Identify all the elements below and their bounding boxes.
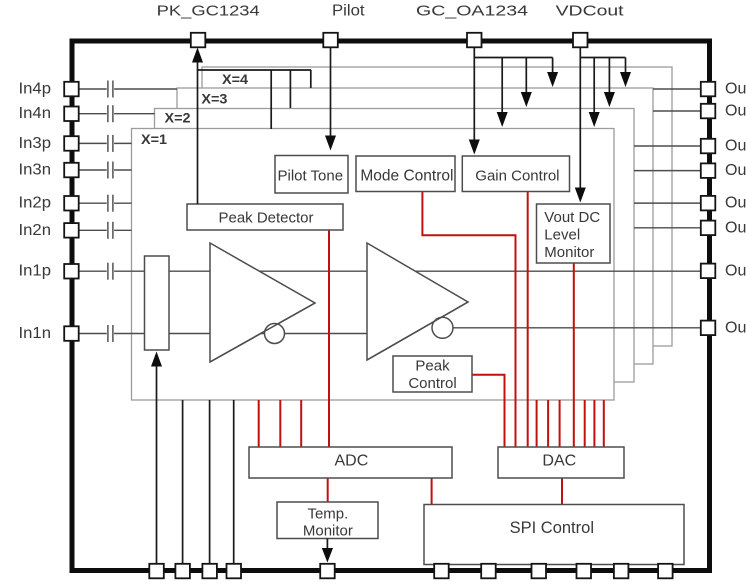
red wire Gain Control to DAC — [527, 192, 529, 448]
svg-text:GC_OA1234: GC_OA1234 — [416, 2, 528, 19]
wire Out4p from card X=3 — [653, 88, 702, 90]
pin Out4n — [701, 104, 716, 119]
svg-text:Vout DC: Vout DC — [544, 209, 600, 226]
svg-text:Control: Control — [408, 375, 456, 392]
bottom pin 4 — [227, 564, 242, 579]
wire In1p signal path to Out1p — [114, 270, 701, 272]
block ADC — [249, 447, 452, 478]
wire Out4n from card X=3 — [653, 110, 702, 112]
capacitor In4p — [108, 81, 113, 98]
pin In3n — [64, 163, 79, 178]
block Peak Control — [393, 356, 472, 392]
red wire ADC to Temp Monitor — [327, 478, 329, 502]
svg-text:Peak Detector: Peak Detector — [218, 210, 313, 227]
wire In2n to card X=1 — [114, 229, 132, 231]
wire bottom pin 3 to card — [209, 400, 211, 563]
wire PK drop to card X=2 — [289, 70, 291, 108]
card X=2 — [155, 109, 635, 383]
bottom pin SPI 1 — [434, 564, 449, 579]
bottom pin SPI 6 — [658, 564, 673, 579]
red stub card to DAC 3 — [559, 400, 561, 447]
block Mode Control — [356, 156, 455, 192]
block Vout DC Level Monitor — [537, 204, 611, 263]
wire In1p lead — [80, 270, 107, 272]
svg-text:Out1n: Out1n — [725, 319, 746, 336]
wire In3p lead — [80, 142, 107, 144]
pin VDCout — [573, 33, 588, 48]
bottom pin SPI 5 — [614, 564, 629, 579]
wire In4p to card X=3 — [114, 88, 177, 90]
block DAC — [498, 447, 624, 478]
arrowhead VDCout into Vout DC Monitor — [575, 188, 586, 203]
bottom pin 2 — [175, 564, 190, 579]
wire Pilot to Pilot Tone — [330, 48, 332, 137]
pin In1n — [64, 326, 79, 341]
svg-text:In3p: In3p — [19, 135, 52, 152]
red stub card to DAC 1 — [536, 400, 538, 447]
svg-text:Monitor: Monitor — [544, 244, 594, 261]
svg-text:In2p: In2p — [19, 195, 52, 212]
wire Temp Monitor to bottom pin — [326, 539, 328, 550]
bottom pin Temp — [320, 564, 335, 579]
pin Out3n — [701, 163, 716, 178]
wire VDC branch — [580, 57, 625, 59]
input mux — [145, 256, 170, 350]
wire In4n lead — [80, 113, 107, 115]
wire In3n to card X=1 — [114, 169, 132, 171]
svg-text:X=4: X=4 — [222, 71, 248, 87]
svg-text:Gain Control: Gain Control — [475, 168, 559, 185]
red stub card to DAC 5 — [593, 400, 595, 447]
capacitor In1p — [108, 263, 113, 280]
svg-text:Level: Level — [544, 227, 580, 244]
arrow GC drop to card X=1 — [497, 58, 508, 128]
wire PK branch — [198, 69, 312, 71]
pin In4p — [64, 82, 79, 97]
red stub card to ADC 3 — [300, 400, 302, 447]
svg-text:Out1p: Out1p — [725, 262, 746, 279]
svg-text:X=3: X=3 — [201, 91, 227, 107]
wire In4p lead — [80, 88, 107, 90]
pin In3p — [64, 136, 79, 151]
red stub card to ADC 1 — [258, 400, 260, 447]
red wire Mode Control to DAC — [422, 192, 515, 448]
pin Out3p — [701, 139, 716, 154]
svg-text:X=1: X=1 — [141, 131, 167, 147]
bottom pin SPI 2 — [481, 564, 496, 579]
red wire Peak Control to DAC — [472, 375, 505, 447]
wire PK drop to card X=3 — [310, 70, 312, 88]
arrowhead GC_OA1234 into Gain Control — [469, 140, 480, 155]
svg-text:Mode Control: Mode Control — [360, 168, 453, 185]
arrow VDC drop to card X=2 — [604, 58, 615, 108]
pin In2n — [64, 223, 79, 238]
pin Out2n — [701, 221, 716, 236]
svg-text:In4p: In4p — [19, 81, 52, 98]
wire In4n to card X=2 — [114, 113, 155, 115]
red wire DAC to SPI Control — [561, 478, 563, 505]
arrowhead PK_GC1234 up — [192, 48, 203, 63]
pin Out1p — [701, 264, 716, 279]
svg-text:Peak: Peak — [415, 358, 450, 375]
inversion bubble on A2 — [432, 317, 453, 338]
arrow GC drop to card X=2 — [521, 58, 532, 108]
wire In3p to card X=1 — [114, 142, 132, 144]
svg-text:In3n: In3n — [19, 162, 52, 179]
wire bottom pin 2 to card — [182, 400, 184, 563]
capacitor In4n — [108, 105, 113, 122]
svg-text:Pilot Tone: Pilot Tone — [277, 168, 343, 185]
svg-text:SPI Control: SPI Control — [510, 519, 594, 537]
card X=3 — [177, 88, 653, 364]
svg-text:In1p: In1p — [19, 263, 52, 280]
svg-text:Out2p: Out2p — [725, 195, 746, 212]
red wire Peak Detector to ADC — [328, 230, 330, 447]
wire GC branch — [474, 57, 552, 59]
svg-text:Temp.: Temp. — [307, 506, 348, 523]
svg-text:Pilot: Pilot — [332, 2, 365, 19]
inversion bubble on A1 — [265, 324, 285, 344]
svg-text:ADC: ADC — [335, 453, 369, 470]
wire In2p lead — [80, 202, 107, 204]
pin PK_GC1234 — [191, 33, 206, 48]
wire In1n signal path — [114, 333, 410, 335]
arrowhead into mux — [151, 352, 162, 367]
svg-text:Monitor: Monitor — [303, 523, 353, 540]
pin In4n — [64, 107, 79, 122]
arrow GC drop to card X=3 — [547, 58, 558, 88]
wire In2n lead — [80, 229, 107, 231]
capacitor In1n — [108, 325, 113, 342]
svg-text:Out2n: Out2n — [725, 219, 746, 236]
bottom pin 1 — [149, 564, 164, 579]
op-amp A1 — [210, 243, 315, 362]
capacitor In2p — [108, 195, 113, 212]
wire GC_OA1234 main — [473, 48, 475, 141]
block Pilot Tone — [275, 156, 348, 194]
pin Pilot — [323, 33, 338, 48]
capacitor In2n — [108, 222, 113, 239]
wire Out2p from card X=2 — [634, 202, 702, 204]
pin In2p — [64, 196, 79, 211]
arrow VDC drop to card X=1 — [589, 58, 600, 128]
wire VDCout main — [579, 48, 581, 189]
pin Out4p — [701, 82, 716, 97]
wire PK drop to card X=1 — [270, 70, 272, 129]
wire In3n lead — [80, 169, 107, 171]
op-amp A2 lower edge over bubble — [367, 302, 468, 360]
svg-text:Out4p: Out4p — [725, 81, 746, 98]
wire bottom pin 4 to card — [233, 400, 235, 563]
pin Out1n — [701, 321, 716, 336]
arrow VDC drop to card X=3 — [620, 58, 631, 88]
red stub card to ADC 2 — [279, 400, 281, 447]
bottom pin SPI 3 — [532, 564, 547, 579]
block SPI Control — [424, 505, 684, 565]
wire PK_GC1234 from Peak Detector — [197, 60, 199, 204]
pin GC_OA1234 — [467, 33, 482, 48]
arrowhead Temp Monitor to pin — [322, 548, 333, 563]
pin In1p — [64, 264, 79, 279]
wire In2p to card X=1 — [114, 202, 132, 204]
chip boundary — [72, 41, 710, 571]
arrowhead Pilot — [325, 136, 336, 151]
wire Out1n from amp2 — [442, 327, 702, 329]
svg-text:In1n: In1n — [19, 325, 52, 342]
wire Out3n from card X=2 — [634, 170, 702, 172]
card X=4 — [202, 67, 672, 346]
capacitor In3p — [108, 135, 113, 152]
bottom pin SPI 4 — [577, 564, 592, 579]
red wire ADC to SPI Control — [431, 478, 433, 505]
op-amp A1 lower edge over bubble — [210, 303, 315, 362]
svg-text:Out4n: Out4n — [725, 103, 746, 120]
capacitor In3n — [108, 162, 113, 179]
svg-text:PK_GC1234: PK_GC1234 — [157, 3, 260, 19]
bottom pin 3 — [202, 564, 217, 579]
red wire Vout DC Monitor to DAC — [573, 263, 575, 447]
svg-text:X=2: X=2 — [165, 110, 191, 126]
svg-text:In2n: In2n — [19, 222, 52, 239]
op-amp A2 — [367, 243, 468, 360]
wire bottom pin 1 up to mux — [156, 365, 158, 563]
wire Out3p from card X=2 — [634, 145, 702, 147]
svg-text:In4n: In4n — [19, 105, 52, 122]
svg-text:Out3n: Out3n — [725, 162, 746, 179]
card X=1 — [132, 129, 615, 401]
red stub card to DAC 2 — [547, 400, 549, 447]
svg-text:VDCout: VDCout — [556, 3, 624, 19]
wire Out2n from card X=2 — [634, 227, 702, 229]
block Peak Detector — [187, 204, 343, 230]
red stub card to DAC 6 — [603, 400, 605, 447]
wire In1n lead — [80, 333, 107, 335]
block Temp Monitor — [277, 502, 378, 539]
pin Out2p — [701, 196, 716, 211]
svg-text:Out3p: Out3p — [725, 138, 746, 155]
svg-text:DAC: DAC — [542, 453, 576, 470]
block Gain Control — [462, 156, 569, 192]
red stub card to DAC 4 — [584, 400, 586, 447]
